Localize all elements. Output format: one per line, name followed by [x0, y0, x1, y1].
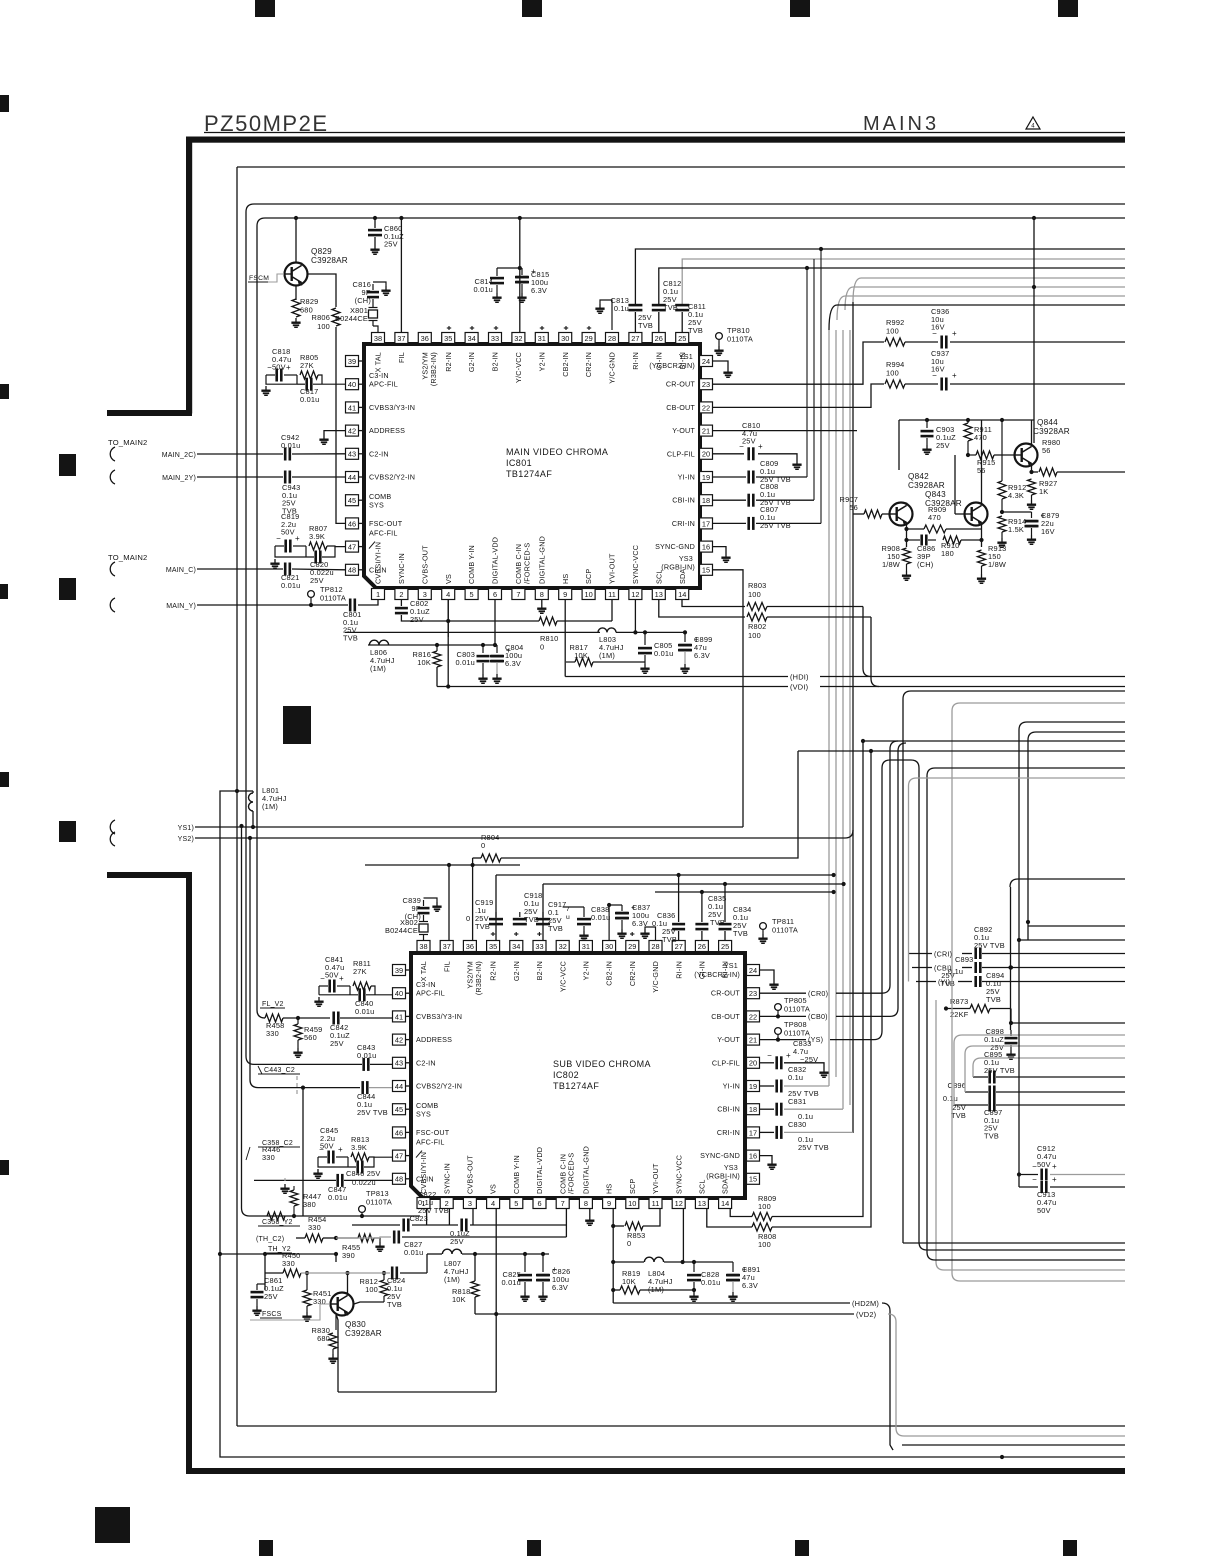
wire C937 out [950, 383, 1125, 385]
svg-text:330: 330 [308, 1223, 321, 1232]
capacitor C822 [402, 1219, 405, 1232]
resistor R806 [332, 308, 340, 326]
revision triangle [1026, 117, 1040, 129]
svg-text:0.01u: 0.01u [355, 1007, 375, 1016]
bus v241 [242, 826, 250, 1216]
capacitor C937 [940, 378, 943, 391]
row777 gray [909, 778, 1126, 982]
bus column x807 [806, 268, 808, 477]
wire Q843 collector [981, 420, 983, 503]
wire IC802 pin24 gnd [760, 970, 775, 980]
wire R803 out [767, 606, 863, 608]
IC801 pin 19 box [700, 472, 713, 483]
svg-text:29: 29 [584, 334, 592, 343]
wire R455 [336, 1237, 358, 1239]
svg-text:X TAL: X TAL [374, 352, 383, 372]
IC801 pin 20 box [700, 448, 713, 459]
svg-text:CBI-IN: CBI-IN [717, 1105, 740, 1114]
resistor R912 [998, 481, 1006, 499]
svg-text:50V: 50V [325, 971, 339, 980]
bus column x821 [820, 249, 822, 523]
registration mark bottom 1 [259, 1540, 273, 1556]
edge tab left 1 [0, 95, 9, 112]
page border left thick upper [186, 137, 192, 414]
svg-text:470: 470 [928, 513, 941, 522]
registration mark top 4 [1058, 0, 1078, 17]
IC802 pin 47 box [393, 1150, 406, 1161]
svg-text:25V: 25V [936, 441, 950, 450]
svg-text:R802: R802 [748, 622, 766, 631]
IC802 pin 44 box [393, 1081, 406, 1092]
IC801 pin 33 box [489, 333, 502, 344]
svg-text:6.3V: 6.3V [505, 659, 521, 668]
svg-text:DIGITAL-VDD: DIGITAL-VDD [491, 537, 500, 584]
IC802 pin 26 box [695, 941, 708, 952]
svg-text:31: 31 [582, 942, 590, 951]
svg-text:+: + [286, 363, 291, 372]
registration mark bottom 4 [1063, 1540, 1077, 1556]
resistor R816 [433, 651, 441, 667]
svg-text:MAIN_Y): MAIN_Y) [166, 603, 196, 610]
svg-text:CB-OUT: CB-OUT [711, 1012, 740, 1021]
wire row1023 [1011, 1009, 1125, 1024]
ground IC802 pin24 [773, 980, 775, 984]
alignment square C [59, 821, 76, 842]
IC802 pin 2 box [440, 1198, 453, 1209]
resistor R818 [474, 1254, 476, 1281]
row645 DIGITAL-VDD [368, 644, 495, 646]
svg-text:36: 36 [421, 334, 429, 343]
svg-text:27K: 27K [353, 967, 367, 976]
IC802 pin 19 box [747, 1081, 760, 1092]
resistor R459 [294, 1024, 302, 1040]
svg-text:ADDRESS: ADDRESS [416, 1035, 452, 1044]
vcc rail y218 [257, 218, 1125, 1018]
ground C903 [926, 445, 928, 449]
capacitor C828 [693, 1262, 695, 1272]
IC802 pin 32 box [556, 941, 569, 952]
svg-text:18: 18 [702, 496, 710, 505]
svg-text:Y2-IN: Y2-IN [537, 352, 546, 371]
capacitor C823 [460, 1219, 463, 1232]
svg-text:38: 38 [419, 942, 427, 951]
svg-text:(TH_C2): (TH_C2) [256, 1236, 284, 1243]
wire row1234 gray [352, 1237, 380, 1239]
IC802 pin 28 box [649, 941, 662, 952]
alignment square E [95, 1507, 130, 1543]
resistor R829 [292, 299, 300, 317]
capacitor C847 [336, 1174, 339, 1187]
ground C899 [684, 664, 686, 668]
svg-text:4: 4 [446, 590, 450, 599]
ground C898 [1010, 1050, 1012, 1054]
resistor R909 [924, 525, 946, 533]
svg-text:0.01u: 0.01u [300, 395, 320, 404]
capacitor C898 [1010, 1030, 1012, 1036]
wire pin2 C802 [400, 600, 402, 606]
ground R908 [906, 571, 908, 575]
svg-text:u: u [566, 914, 570, 921]
svg-text:CLP-FIL: CLP-FIL [667, 449, 695, 458]
svg-text:0: 0 [627, 1239, 631, 1248]
svg-text:(1M): (1M) [648, 1285, 664, 1294]
IC802 pin 7 box [556, 1198, 569, 1209]
IC801 pin 11 box [606, 589, 619, 600]
svg-text:29: 29 [628, 942, 636, 951]
svg-text:CI-IN: CI-IN [416, 1174, 434, 1183]
inductor L803 [598, 628, 616, 633]
svg-text:YI-IN: YI-IN [723, 1082, 740, 1091]
resistor R458 [265, 1014, 283, 1022]
wire CRI row [908, 953, 932, 955]
ground R913 [981, 574, 983, 578]
wire row865 [365, 864, 520, 866]
svg-text:28: 28 [651, 942, 659, 951]
svg-text:R2-IN: R2-IN [444, 352, 453, 372]
svg-text:C2-IN: C2-IN [416, 1058, 436, 1067]
bus gray row y296 [837, 296, 1125, 320]
svg-text:10: 10 [584, 590, 592, 599]
svg-text:Q829: Q829 [311, 247, 332, 256]
svg-text:CR-OUT: CR-OUT [711, 989, 741, 998]
registration mark top 1 [255, 0, 275, 17]
svg-text:+: + [952, 371, 957, 380]
IC801 pin 26 box [652, 333, 665, 344]
svg-text:100: 100 [748, 631, 761, 640]
testpoint TP811 [760, 923, 767, 930]
wire row1254 [218, 1252, 222, 1256]
capacitor C839 [423, 900, 425, 906]
svg-text:CR-OUT: CR-OUT [666, 380, 696, 389]
IC802 pin 13 box [695, 1198, 708, 1209]
svg-text:TVB: TVB [343, 633, 358, 642]
capacitor C812 [652, 304, 666, 307]
wire R806 to pin46 [336, 327, 345, 523]
svg-text:35: 35 [489, 942, 497, 951]
capacitor C936 [940, 336, 943, 349]
resistor R809 [752, 1213, 772, 1221]
svg-text:0110TA: 0110TA [366, 1197, 392, 1206]
svg-text:CB-OUT: CB-OUT [666, 403, 695, 412]
svg-text:330: 330 [266, 1029, 279, 1038]
wire CBI row [912, 967, 932, 969]
IC802 pin 4 box [487, 1198, 500, 1209]
svg-text:APC-FIL: APC-FIL [369, 380, 398, 389]
svg-text:11: 11 [652, 1199, 660, 1208]
svg-text:0.01u: 0.01u [281, 581, 301, 590]
svg-text:Q842: Q842 [908, 472, 929, 481]
capacitor C896 [988, 1086, 991, 1099]
svg-text:+: + [1052, 1175, 1057, 1184]
svg-text:35: 35 [444, 334, 452, 343]
ground C819 [274, 559, 276, 563]
HD2M end tick [890, 1445, 893, 1450]
wire pin37 to rail [400, 218, 402, 332]
registration mark bottom 2 [527, 1540, 541, 1556]
svg-text:27: 27 [631, 334, 639, 343]
ground C814 [496, 293, 498, 297]
svg-text:0.1u: 0.1u [614, 304, 629, 313]
IC802 pin 24 box [747, 965, 760, 976]
capacitor C912 [1040, 1169, 1043, 1181]
svg-text:5: 5 [470, 590, 474, 599]
IC802 pin 3 box [463, 1198, 476, 1209]
svg-text:X TAL: X TAL [419, 961, 428, 981]
bus column x836 [835, 330, 837, 1077]
svg-text:CRI-IN: CRI-IN [672, 519, 695, 528]
wire VD2 curve [888, 1314, 1125, 1436]
wire Q842 emitter [906, 526, 908, 548]
capacitor C843 [362, 1058, 365, 1071]
svg-text:IC801: IC801 [506, 458, 532, 468]
svg-text:17: 17 [749, 1128, 757, 1137]
edge tab left 5 [0, 1160, 9, 1175]
IC U802 body [411, 953, 745, 1198]
capacitor C913 [1040, 1181, 1043, 1193]
svg-text:+: + [1052, 1162, 1057, 1171]
svg-text:0110TA: 0110TA [320, 593, 346, 602]
wire Q830 emitter down [337, 1316, 339, 1393]
row1273 [345, 1271, 349, 1275]
ground R927 [1031, 500, 1033, 504]
svg-text:10K: 10K [417, 658, 431, 667]
svg-text:25V: 25V [264, 1292, 278, 1301]
svg-text:(RGBI-IN): (RGBI-IN) [661, 562, 695, 571]
svg-text:37: 37 [397, 334, 405, 343]
registration mark top 2 [522, 0, 542, 17]
svg-text:SCL: SCL [698, 1179, 707, 1194]
capacitor C808 [747, 494, 750, 507]
wire pin13 SCL down [659, 600, 745, 617]
capacitor C818 [275, 369, 278, 382]
svg-text:CLP-FIL: CLP-FIL [712, 1058, 740, 1067]
svg-text:SYS: SYS [369, 501, 384, 510]
svg-text:CBI-IN: CBI-IN [672, 496, 695, 505]
inductor L806 [369, 640, 388, 645]
svg-text:25V TVB: 25V TVB [984, 1066, 1015, 1075]
wire R992-C936 [905, 341, 938, 343]
svg-text:(VDI): (VDI) [790, 683, 808, 692]
resistor R853 [613, 1225, 624, 1227]
wire HD2M curve [882, 1303, 890, 1445]
capacitor C917 [542, 912, 544, 917]
row703 gray [952, 703, 1125, 1273]
bus column x853 [852, 302, 854, 1133]
svg-text:0.01u: 0.01u [502, 1278, 522, 1287]
IC801 pin 13 box [652, 589, 665, 600]
svg-text:CR2-IN: CR2-IN [628, 961, 637, 986]
wire pin4 col down [495, 1209, 497, 1392]
IC801 pin 46 box [346, 518, 359, 529]
IC801 pin 15 box [700, 564, 713, 575]
capacitor C830 [775, 1126, 778, 1139]
capacitor C894 [974, 976, 977, 987]
wire pin28 gnd bracket [645, 927, 656, 941]
svg-text:470: 470 [974, 433, 987, 442]
wire R912-R914 [1000, 510, 1004, 514]
row HDI [565, 676, 788, 678]
rail Q84x top [899, 419, 1034, 421]
svg-text:100: 100 [758, 1202, 771, 1211]
wire v220 left [220, 791, 1125, 1457]
svg-text:180: 180 [941, 549, 954, 558]
svg-text:APC-FIL: APC-FIL [416, 989, 445, 998]
bus column x1034 [1033, 218, 1035, 443]
svg-text:ADDRESS: ADDRESS [369, 426, 405, 435]
bus gray row y287 [845, 287, 1125, 310]
IC801 pin 18 box [700, 495, 713, 506]
resistor R802 [747, 613, 767, 621]
IC801 pin 29 box [582, 333, 595, 344]
ground pin8 IC802 [589, 1216, 591, 1220]
svg-text:21: 21 [702, 427, 710, 436]
resistor R450 [283, 1269, 301, 1277]
svg-text:Y/C-VCC: Y/C-VCC [558, 961, 567, 992]
IC802 pin 34 box [510, 941, 523, 952]
IC801 pin 27 box [629, 333, 642, 344]
svg-text:330: 330 [282, 1259, 295, 1268]
bus v1019 [1018, 730, 1020, 1187]
wire R804 row [473, 857, 481, 859]
ground pin28 [599, 304, 601, 308]
svg-text:B0244CE: B0244CE [335, 314, 368, 323]
svg-text:0.01u: 0.01u [474, 285, 494, 294]
wire pin23 CR-OUT [713, 342, 885, 384]
wire pin42 ground [324, 431, 345, 435]
svg-text:25V TVB: 25V TVB [357, 1108, 388, 1117]
svg-text:CRI-IN: CRI-IN [717, 1128, 740, 1137]
testpoint TP812 [308, 591, 315, 598]
svg-text:/FORCED-S: /FORCED-S [522, 543, 531, 584]
ground R914 [1001, 538, 1003, 542]
svg-text:TVB: TVB [688, 326, 703, 335]
svg-text:(1M): (1M) [599, 651, 615, 660]
svg-text:10K: 10K [622, 1277, 636, 1286]
resistor R813 [351, 1153, 369, 1161]
wire pin22 CB0 [760, 1015, 807, 1017]
svg-text:25V: 25V [742, 437, 756, 446]
wire YS2 row [195, 837, 845, 839]
IC801 pin 41 box [346, 402, 359, 413]
svg-text:45: 45 [348, 496, 356, 505]
bus column x814 [813, 259, 815, 500]
nc tick ic802 [492, 932, 494, 936]
ground C833 [823, 1068, 825, 1072]
svg-text:41: 41 [395, 1012, 403, 1021]
IC801 pin 38 box [372, 333, 385, 344]
IC801 pin 5 box [465, 589, 478, 600]
svg-text:3.9K: 3.9K [351, 1143, 367, 1152]
wire MAIN_C [197, 568, 283, 570]
svg-text:SUB VIDEO CHROMA: SUB VIDEO CHROMA [553, 1059, 651, 1069]
svg-text:40: 40 [395, 989, 403, 998]
svg-text:6: 6 [537, 1199, 541, 1208]
svg-text:R2-IN: R2-IN [489, 961, 498, 981]
svg-text:TVB: TVB [986, 995, 1001, 1004]
svg-text:−: − [1032, 1175, 1037, 1184]
wire pin7 col down [565, 1209, 567, 1237]
svg-text:8: 8 [584, 1199, 588, 1208]
capacitor C918 [519, 912, 521, 917]
capacitor C837 [621, 905, 623, 911]
capacitor C826 [542, 1254, 544, 1272]
resistor R811 [353, 982, 371, 990]
ground C804 [496, 674, 498, 678]
capacitor C814 [496, 268, 498, 276]
bus gray row y278 [853, 278, 1125, 302]
svg-text:IC802: IC802 [553, 1070, 579, 1080]
svg-text:Q830: Q830 [345, 1320, 366, 1329]
edge tab left 4 [0, 772, 9, 787]
capacitor C879 [1031, 512, 1033, 518]
svg-text:19: 19 [749, 1082, 757, 1091]
frame line 1 bottom [237, 1425, 1125, 1427]
resistor R817 [575, 658, 593, 666]
resistor R830 [329, 1333, 337, 1349]
IC802 pin 46 box [393, 1127, 406, 1138]
svg-text:50V: 50V [1037, 1206, 1051, 1215]
svg-text:0.01u: 0.01u [328, 1193, 348, 1202]
IC802 pin 5 box [510, 1198, 523, 1209]
svg-text:42: 42 [348, 427, 356, 436]
IC802 pin 43 box [393, 1057, 406, 1068]
svg-text:33: 33 [535, 942, 543, 951]
svg-text:17: 17 [702, 519, 710, 528]
row1262 [613, 1261, 644, 1263]
ground C810 [796, 460, 798, 464]
wire BI-IN row y259 gray [682, 259, 1125, 304]
IC801 pin 36 box [418, 333, 431, 344]
svg-text:3: 3 [468, 1199, 472, 1208]
wire pin14 R809 [730, 1209, 752, 1217]
wire jog 427 [426, 1254, 428, 1273]
svg-text:100: 100 [748, 590, 761, 599]
svg-text:34: 34 [467, 334, 475, 343]
svg-text:1.5K: 1.5K [1008, 525, 1024, 534]
ground C816 [385, 286, 387, 290]
ground IC802 pin16 [771, 1160, 773, 1164]
svg-text:YS1: YS1 [679, 352, 693, 361]
ground TP811 [762, 934, 764, 938]
wire pin28 gnd bracket [600, 300, 612, 330]
row1254 [427, 1253, 442, 1255]
row HD2M [613, 1302, 850, 1304]
IC801 pin 45 box [346, 495, 359, 506]
svg-text:24: 24 [702, 357, 710, 366]
svg-text:25V TVB: 25V TVB [760, 521, 791, 530]
svg-text:DIGITAL-VDD: DIGITAL-VDD [535, 1147, 544, 1194]
svg-text:38: 38 [374, 334, 382, 343]
svg-text:22KF: 22KF [950, 1010, 969, 1019]
wire pin16 gnd [713, 547, 727, 553]
connector MAIN_C [110, 562, 115, 576]
svg-text:46: 46 [395, 1128, 403, 1137]
svg-text:6.3V: 6.3V [742, 1281, 758, 1290]
IC802 pin 33 box [533, 941, 546, 952]
wire pin15 YS3 [713, 570, 744, 827]
page border bottom thick [186, 1468, 1125, 1474]
IC801 pin 6 box [489, 589, 502, 600]
svg-text:YVI-OUT: YVI-OUT [651, 1163, 660, 1194]
svg-text:20: 20 [749, 1059, 757, 1068]
svg-text:25V: 25V [330, 1039, 344, 1048]
IC802 pin 6 box [533, 1198, 546, 1209]
ground TP810 [718, 346, 720, 350]
svg-text:RI-IN: RI-IN [631, 352, 640, 370]
ground C803 [482, 674, 484, 678]
svg-text:SCP: SCP [628, 1179, 637, 1194]
svg-text:+: + [339, 974, 344, 983]
